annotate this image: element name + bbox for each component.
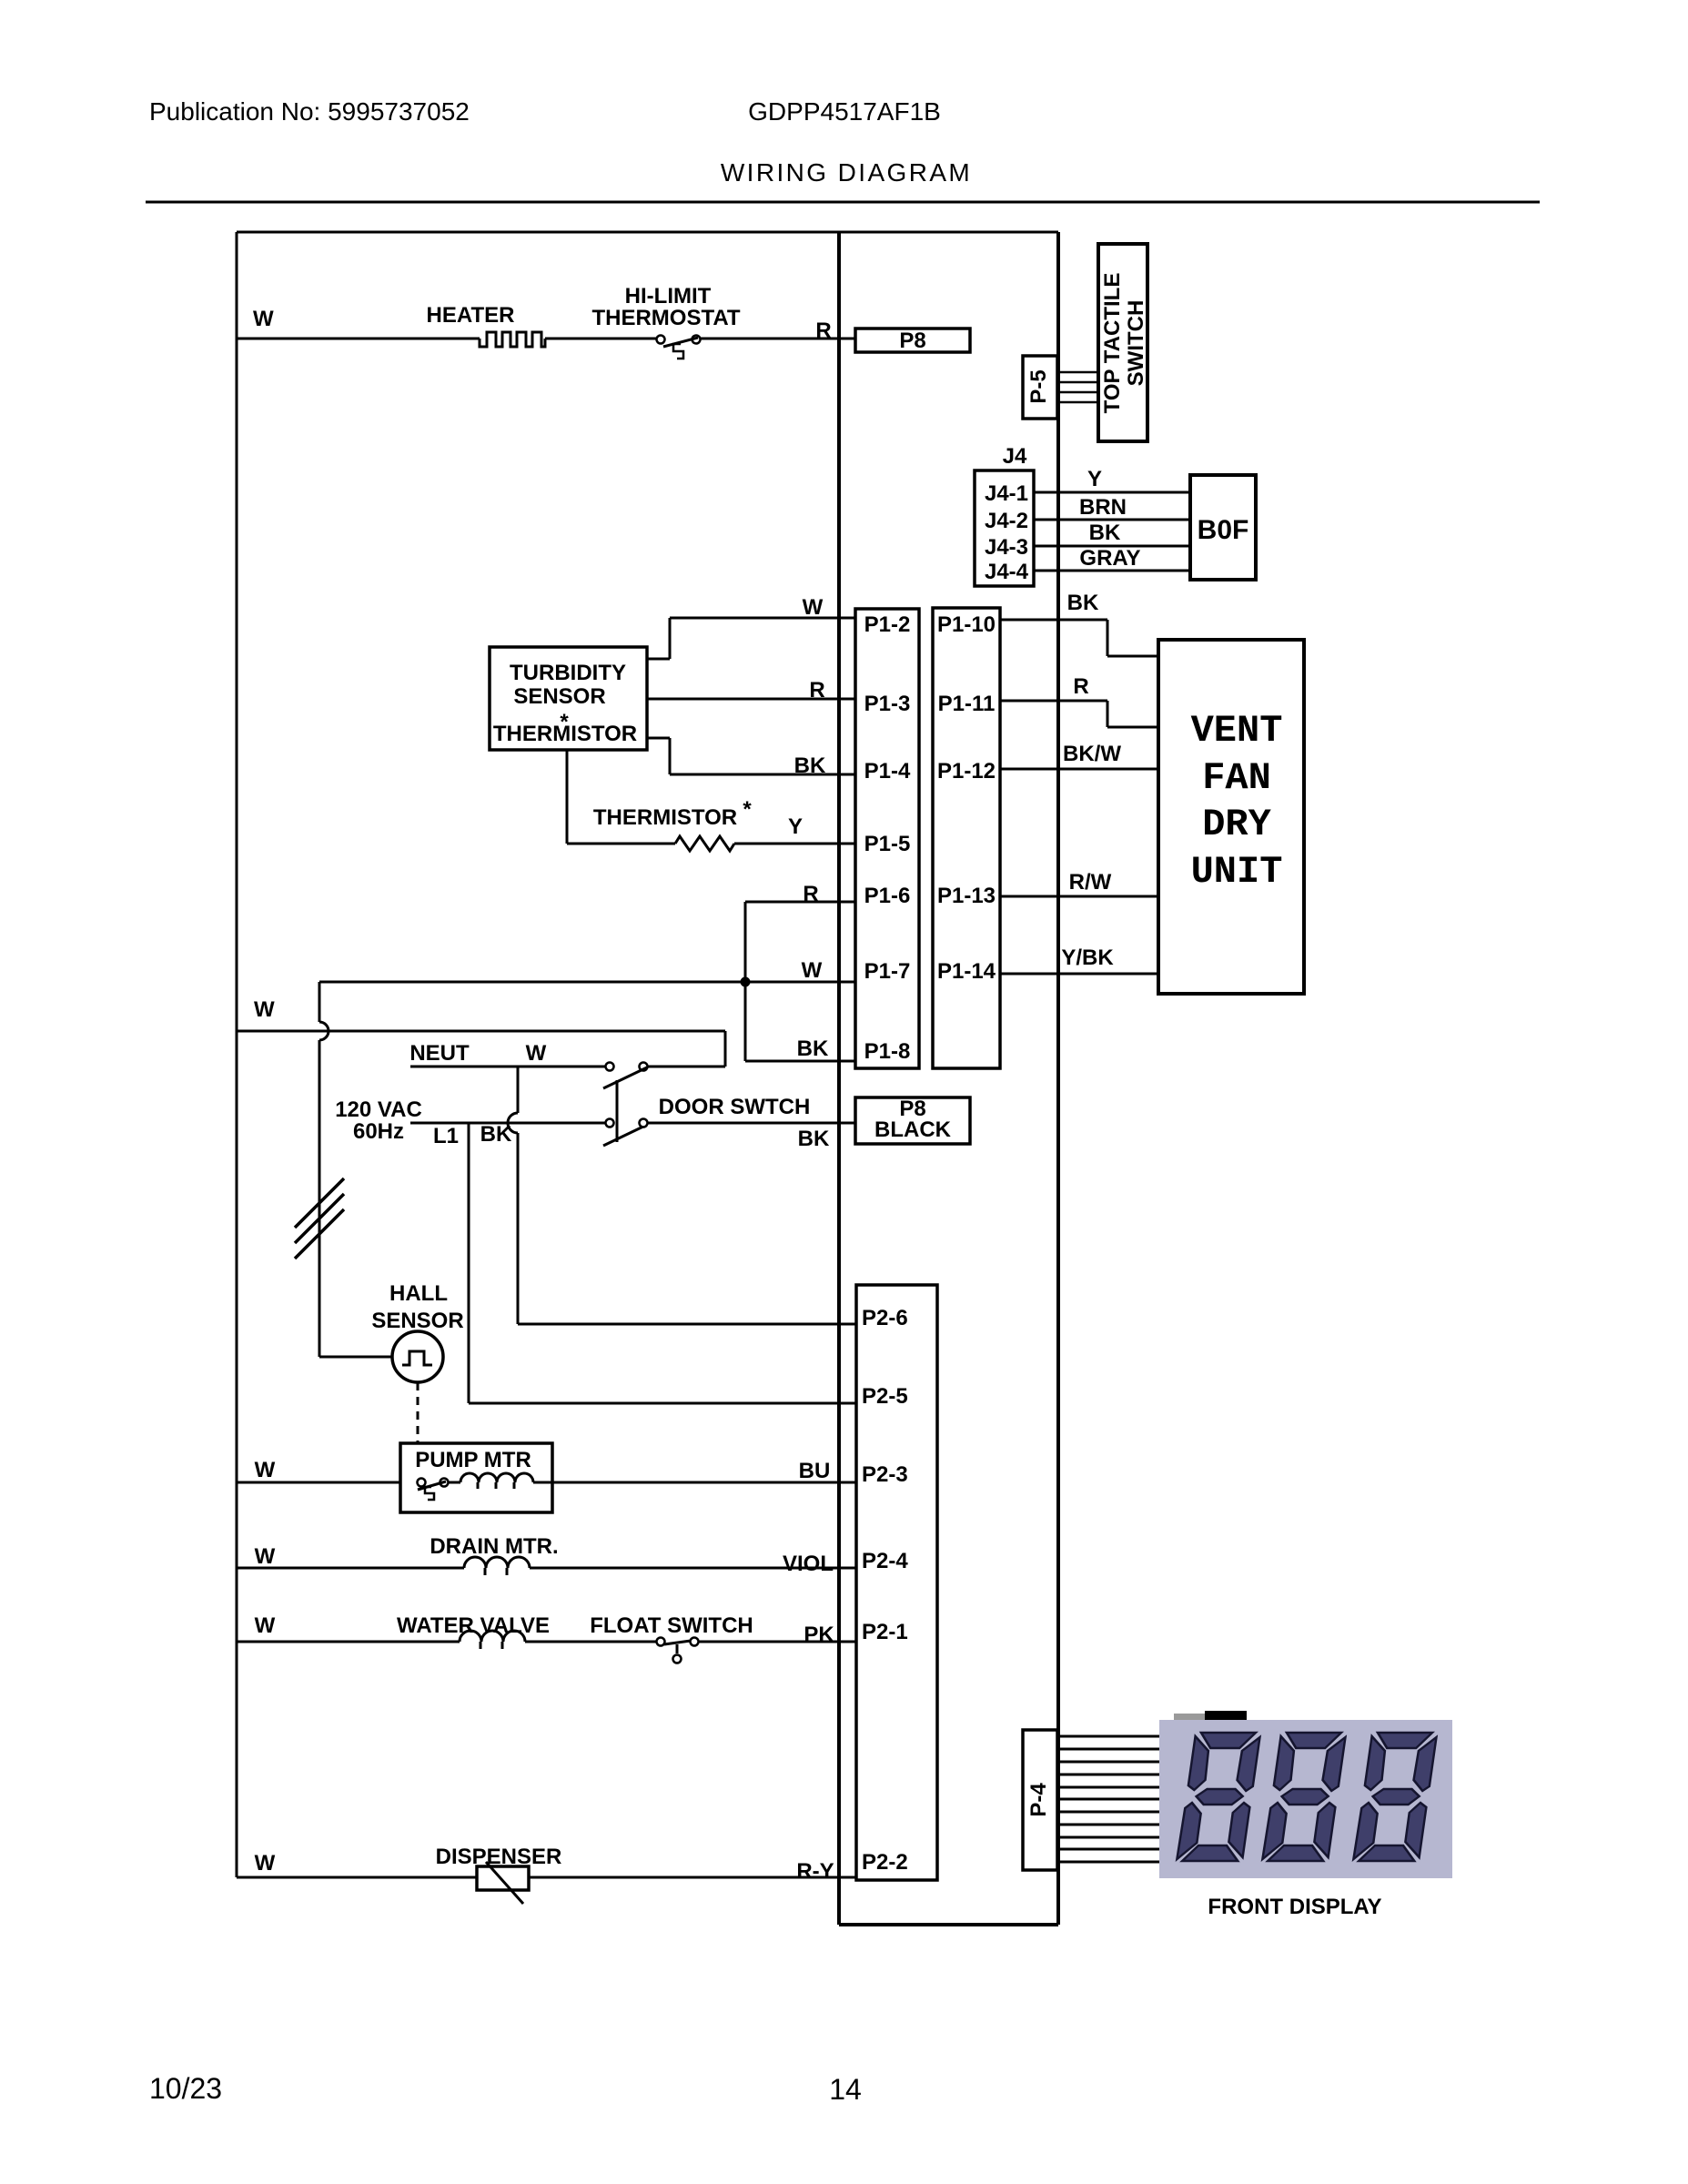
svg-text:W: W <box>253 307 274 331</box>
svg-text:WIRING DIAGRAM: WIRING DIAGRAM <box>721 158 972 187</box>
svg-text:W: W <box>526 1041 547 1066</box>
svg-text:DOOR SWTCH: DOOR SWTCH <box>659 1095 811 1119</box>
svg-text:W: W <box>803 595 824 620</box>
svg-text:W: W <box>255 1613 276 1638</box>
svg-text:BLACK: BLACK <box>874 1117 952 1142</box>
svg-text:J4-2: J4-2 <box>985 509 1028 533</box>
svg-text:FAN: FAN <box>1202 756 1271 800</box>
svg-text:WATER VALVE: WATER VALVE <box>397 1613 550 1638</box>
svg-text:P1-14: P1-14 <box>937 959 996 984</box>
svg-text:VENT: VENT <box>1191 709 1283 753</box>
svg-text:W: W <box>255 1544 276 1569</box>
svg-text:DISPENSER: DISPENSER <box>436 1845 562 1869</box>
svg-text:P2-1: P2-1 <box>862 1620 908 1644</box>
svg-text:P1-10: P1-10 <box>937 612 996 637</box>
svg-text:P1-4: P1-4 <box>864 759 911 784</box>
svg-text:P1-6: P1-6 <box>864 884 911 908</box>
svg-text:THERMISTOR: THERMISTOR <box>593 805 737 830</box>
svg-text:L1: L1 <box>433 1124 459 1148</box>
svg-text:GRAY: GRAY <box>1079 546 1140 571</box>
svg-text:P1-5: P1-5 <box>864 832 911 856</box>
svg-text:FLOAT SWITCH: FLOAT SWITCH <box>590 1613 753 1638</box>
svg-text:VIOL: VIOL <box>783 1552 834 1576</box>
svg-text:PK: PK <box>804 1623 834 1647</box>
svg-text:NEUT: NEUT <box>409 1041 470 1066</box>
svg-text:P1-13: P1-13 <box>937 884 996 908</box>
svg-text:R: R <box>815 318 831 343</box>
svg-text:60Hz: 60Hz <box>353 1119 404 1144</box>
svg-text:P2-6: P2-6 <box>862 1306 908 1330</box>
svg-text:P1-3: P1-3 <box>864 692 911 716</box>
svg-text:BK: BK <box>794 753 826 778</box>
svg-text:UNIT: UNIT <box>1191 850 1283 894</box>
svg-text:P1-2: P1-2 <box>864 612 911 637</box>
svg-text:B0F: B0F <box>1198 515 1249 545</box>
svg-text:J4-4: J4-4 <box>985 560 1029 584</box>
svg-text:BK/W: BK/W <box>1063 742 1121 766</box>
svg-text:R: R <box>803 882 818 906</box>
svg-text:P1-7: P1-7 <box>864 959 911 984</box>
svg-text:120 VAC: 120 VAC <box>335 1097 422 1122</box>
svg-text:BK: BK <box>480 1122 512 1147</box>
svg-text:Y: Y <box>788 814 803 839</box>
svg-text:W: W <box>254 997 275 1022</box>
svg-text:BK: BK <box>797 1036 829 1061</box>
svg-text:W: W <box>255 1458 276 1482</box>
svg-text:Publication No: 5995737052: Publication No: 5995737052 <box>149 97 470 126</box>
svg-text:SENSOR: SENSOR <box>513 684 605 709</box>
svg-text:TOP TACTILE: TOP TACTILE <box>1100 273 1125 414</box>
svg-text:BK: BK <box>1089 521 1121 545</box>
svg-text:HALL: HALL <box>389 1281 448 1306</box>
svg-text:*: * <box>743 797 752 822</box>
svg-text:P1-11: P1-11 <box>938 692 996 716</box>
svg-text:BU: BU <box>799 1459 831 1483</box>
svg-text:10/23: 10/23 <box>149 2072 222 2105</box>
svg-text:Y: Y <box>1087 467 1102 491</box>
svg-text:R: R <box>809 678 824 703</box>
svg-text:P-5: P-5 <box>1026 369 1051 403</box>
svg-text:R-Y: R-Y <box>796 1859 834 1884</box>
svg-text:J4-3: J4-3 <box>985 535 1028 560</box>
svg-text:GDPP4517AF1B: GDPP4517AF1B <box>748 97 941 126</box>
svg-text:FRONT DISPLAY: FRONT DISPLAY <box>1208 1895 1381 1919</box>
svg-text:PUMP MTR: PUMP MTR <box>415 1448 531 1472</box>
svg-text:DRY: DRY <box>1202 803 1271 846</box>
svg-text:P8: P8 <box>899 329 925 353</box>
svg-text:Y/BK: Y/BK <box>1061 945 1114 970</box>
svg-text:THERMISTOR: THERMISTOR <box>493 722 637 746</box>
svg-text:W: W <box>255 1851 276 1876</box>
svg-text:P2-4: P2-4 <box>862 1549 908 1573</box>
svg-text:BRN: BRN <box>1079 495 1127 520</box>
svg-text:SENSOR: SENSOR <box>371 1309 463 1333</box>
svg-text:SWITCH: SWITCH <box>1124 300 1148 387</box>
svg-text:HEATER: HEATER <box>427 303 515 328</box>
svg-text:P2-5: P2-5 <box>862 1384 908 1409</box>
svg-text:P-4: P-4 <box>1026 1783 1051 1817</box>
svg-text:P2-3: P2-3 <box>862 1462 908 1487</box>
svg-text:P1-12: P1-12 <box>937 759 996 784</box>
svg-text:BK: BK <box>798 1127 830 1151</box>
svg-text:14: 14 <box>829 2073 862 2106</box>
svg-text:HI-LIMIT: HI-LIMIT <box>625 284 712 308</box>
svg-text:P2-2: P2-2 <box>862 1850 908 1875</box>
svg-text:J4-1: J4-1 <box>985 481 1028 506</box>
svg-text:J4: J4 <box>1003 444 1027 469</box>
svg-text:P1-8: P1-8 <box>864 1039 911 1064</box>
svg-text:R: R <box>1073 674 1088 699</box>
svg-text:DRAIN MTR.: DRAIN MTR. <box>430 1534 558 1559</box>
svg-text:BK: BK <box>1067 591 1099 615</box>
svg-text:R/W: R/W <box>1069 870 1112 895</box>
svg-text:W: W <box>802 958 823 983</box>
svg-text:TURBIDITY: TURBIDITY <box>510 661 626 685</box>
svg-text:THERMOSTAT: THERMOSTAT <box>591 306 740 330</box>
